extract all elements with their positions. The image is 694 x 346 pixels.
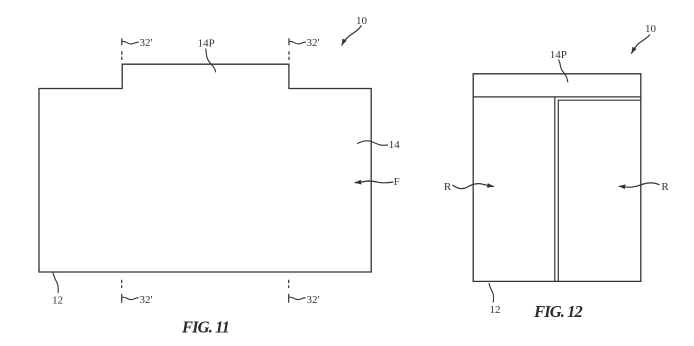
FIG.12 partition wall 14P bottom line: [473, 96, 641, 98]
FIG.12 caption: [533, 302, 582, 321]
FIG.12 label 12: [490, 304, 501, 316]
svg-text:32': 32': [307, 294, 320, 306]
FIG.11 label 14P: [198, 38, 215, 50]
FIG.12 right label R: [661, 181, 669, 193]
FIG.11 device housing outline 14: [39, 64, 371, 272]
svg-text:R: R: [444, 181, 452, 193]
svg-text:10: 10: [356, 15, 368, 27]
FIG.12 left arrow leader R: [453, 184, 495, 189]
svg-text:32': 32': [140, 294, 153, 306]
FIG.11 bottom-right tick bar 32': [288, 294, 290, 303]
svg-text:14P: 14P: [550, 49, 567, 61]
svg-text:32': 32': [307, 37, 320, 49]
FIG.11 bottom-left label 32': [140, 294, 153, 306]
FIG.11 leader line 12: [53, 273, 58, 293]
svg-text:32': 32': [140, 37, 153, 49]
FIG.12 label 10: [645, 23, 657, 35]
svg-text:14: 14: [389, 139, 401, 151]
FIG.11 leader line 14P: [206, 49, 216, 73]
svg-text:FIG. 12: FIG. 12: [533, 302, 582, 321]
FIG.11 label 14: [389, 139, 401, 151]
FIG.11 bottom-left dashed tick line: [121, 280, 123, 288]
FIG.12 leader line 12: [489, 283, 494, 302]
FIG.12 left label R: [444, 181, 452, 193]
FIG.11 bottom-left tick squiggle leader: [122, 297, 139, 300]
svg-text:R: R: [661, 181, 669, 193]
svg-text:FIG. 11: FIG. 11: [181, 318, 229, 337]
FIG.12 leader line 14P: [558, 60, 568, 83]
FIG.11 bottom-left tick bar 32': [121, 294, 123, 303]
FIG.11 top-left dashed tick line: [121, 51, 123, 60]
FIG.12 arrow leader 10: [631, 35, 650, 54]
FIG.11 label 10: [356, 15, 368, 27]
FIG.11 top-left tick bar 32': [121, 38, 123, 45]
svg-text:F: F: [394, 176, 400, 188]
FIG.11 caption: [181, 318, 229, 337]
FIG.11 top-right tick squiggle leader: [289, 41, 306, 44]
FIG.11 top-right dashed tick line: [288, 51, 290, 60]
FIG.11 label F: [394, 176, 400, 188]
FIG.11 bottom-right dashed tick line: [288, 280, 290, 288]
FIG.11 arrow leader F: [355, 181, 394, 183]
FIG.12 label 14P: [550, 49, 567, 61]
FIG.12 right arrow leader R: [619, 183, 660, 187]
FIG.11 top-right label 32': [307, 37, 320, 49]
svg-text:14P: 14P: [198, 38, 215, 50]
FIG.11 bottom-right tick squiggle leader: [289, 297, 306, 300]
svg-text:12: 12: [490, 304, 501, 316]
FIG.12 outer housing outline: [473, 74, 641, 282]
FIG.11 top-right tick bar 32': [288, 38, 290, 45]
FIG.11 label 12: [52, 295, 63, 307]
FIG.11 top-left tick squiggle leader: [122, 41, 139, 44]
svg-text:12: 12: [52, 295, 63, 307]
FIG.11 leader line 14: [357, 141, 388, 145]
FIG.12 right panel inset outline: [558, 100, 641, 281]
FIG.11 arrow leader 10: [342, 26, 362, 46]
FIG.11 top-left label 32': [140, 37, 153, 49]
FIG.11 bottom-right label 32': [307, 294, 320, 306]
FIG.12 center divider left line: [554, 97, 556, 282]
svg-text:10: 10: [645, 23, 657, 35]
